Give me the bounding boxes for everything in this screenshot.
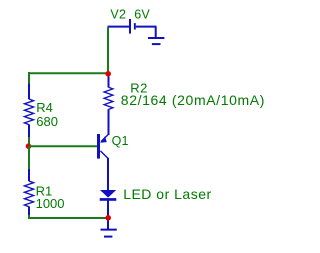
svg-text:Q1: Q1 bbox=[112, 134, 129, 148]
svg-text:6V: 6V bbox=[134, 8, 150, 22]
junction node top bbox=[105, 71, 111, 77]
wire battery to top junction bbox=[107, 27, 109, 74]
resistor R2 bbox=[104, 77, 113, 136]
resistor R1 bbox=[24, 169, 33, 216]
svg-text:V2: V2 bbox=[110, 8, 126, 22]
svg-text:LED or Laser: LED or Laser bbox=[123, 186, 211, 202]
wire base (junction to Q1 base) bbox=[29, 145, 97, 147]
LED D1 (LED or Laser) bbox=[100, 190, 117, 229]
wire left rail between junction and R1 bbox=[28, 146, 30, 170]
svg-text:680: 680 bbox=[36, 114, 58, 129]
resistor R4 bbox=[24, 84, 33, 139]
svg-text:82/164 (20mA/10mA): 82/164 (20mA/10mA) bbox=[121, 92, 265, 108]
junction node left (divider midpoint) bbox=[26, 143, 32, 149]
battery V2 bbox=[108, 19, 157, 34]
ground (bottom) bbox=[101, 230, 117, 237]
wire bottom rail bbox=[28, 217, 108, 219]
wire left rail between R4 and junction bbox=[28, 137, 30, 146]
wire left rail upper bbox=[28, 72, 30, 84]
svg-text:1000: 1000 bbox=[36, 196, 65, 211]
wire top rail bbox=[28, 72, 109, 74]
label V2 6V bbox=[110, 8, 150, 22]
transistor Q1 bbox=[97, 134, 108, 191]
junction node bottom bbox=[105, 215, 111, 221]
svg-text:R4: R4 bbox=[36, 100, 53, 115]
ground (battery, top right) bbox=[148, 27, 164, 44]
wire left rail bottom elbow bbox=[29, 215, 32, 218]
